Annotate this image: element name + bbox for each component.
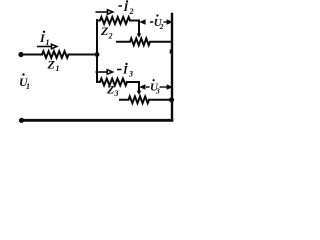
svg-text:Z: Z — [47, 58, 56, 72]
wire: Z1 to node A — [69, 54, 98, 56]
wire: Z2 to corner — [130, 20, 139, 22]
current arrow -I2 — [96, 10, 113, 14]
wire: tap drop onto load 2 — [138, 21, 140, 34]
voltage dimension arrows -U2 — [141, 20, 171, 23]
label Z3 — [106, 83, 119, 98]
svg-text:1: 1 — [46, 38, 50, 47]
svg-text:2: 2 — [159, 22, 164, 31]
wire: left rail vertical — [96, 20, 98, 82]
resistor load 2 (tapped) — [117, 38, 172, 45]
wire: right rail vertical — [171, 14, 173, 120]
label -I2 — [119, 0, 134, 16]
node B junction dot — [169, 97, 174, 102]
current arrow I1 — [37, 44, 57, 49]
current arrow -I3 — [96, 70, 113, 74]
terminal dot left top — [18, 52, 23, 57]
svg-text:2: 2 — [129, 7, 134, 16]
wire: main from terminal to resistor Z1 — [22, 54, 42, 56]
label -I3 — [117, 63, 133, 79]
resistor Z3 — [97, 79, 127, 86]
svg-text:3: 3 — [114, 89, 119, 98]
svg-text:1: 1 — [26, 82, 30, 91]
label -U3 — [146, 79, 160, 95]
wire: bottom rail — [22, 119, 172, 122]
svg-text:3: 3 — [155, 87, 160, 96]
tap arrowhead 2 — [137, 34, 142, 38]
terminal dot left bottom — [19, 118, 24, 123]
resistor load 3 (tapped) — [120, 96, 172, 103]
tap arrowhead 3 — [137, 91, 142, 95]
svg-text:2: 2 — [108, 32, 113, 41]
wire: tap drop onto load 3 — [138, 82, 140, 91]
node A junction dot — [95, 52, 100, 57]
svg-text:3: 3 — [128, 70, 133, 79]
label I1 — [39, 31, 50, 47]
ink nub on right rail — [170, 50, 172, 54]
label -U2 — [150, 14, 164, 31]
voltage dimension arrows -U3 — [141, 85, 172, 88]
resistor Z2 — [97, 17, 130, 24]
label U1 — [19, 73, 30, 91]
wire: Z3 to corner — [127, 81, 139, 83]
label Z2 — [100, 24, 113, 41]
svg-text:1: 1 — [56, 64, 60, 73]
resistor Z1 — [42, 51, 69, 58]
label Z1 — [47, 58, 60, 74]
